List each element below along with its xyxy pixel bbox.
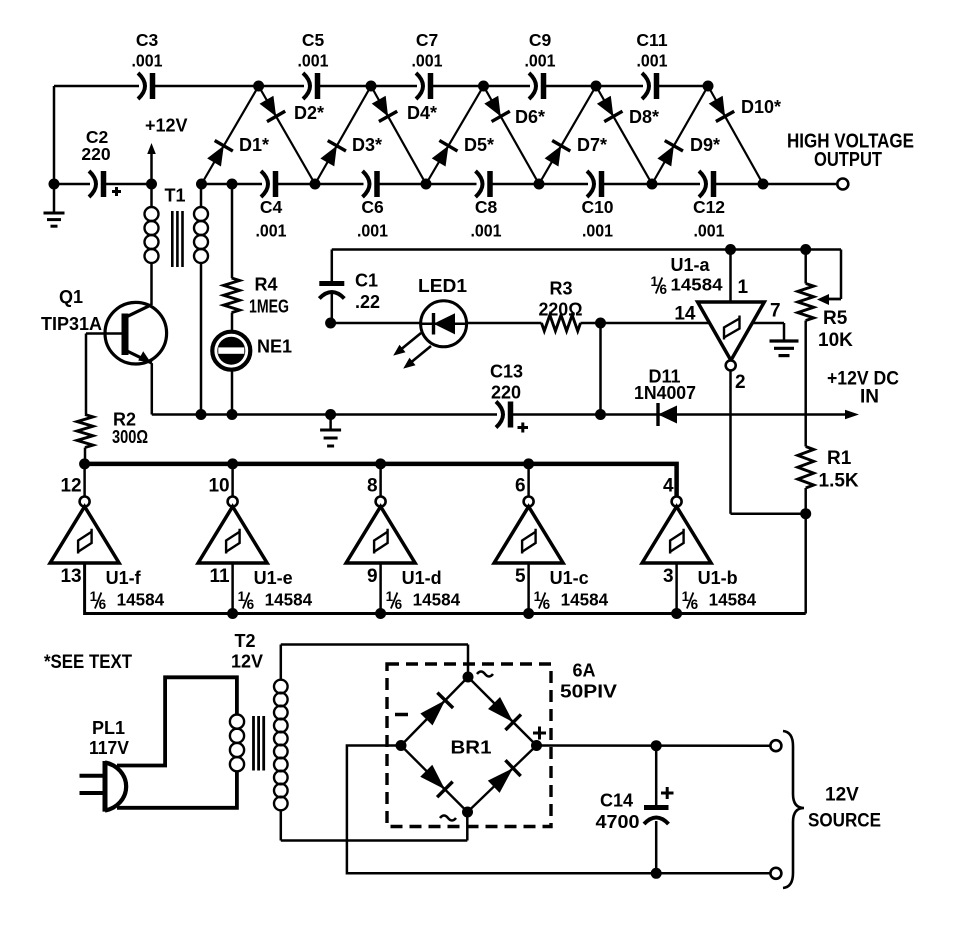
junction U1-a pin1 (725, 244, 736, 255)
capacitor C11 (636, 30, 667, 99)
capacitor C4 (256, 171, 287, 241)
svg-text:50PIV: 50PIV (560, 682, 617, 702)
svg-text:.001: .001 (357, 221, 388, 241)
transformer T2 primary (230, 631, 263, 771)
svg-text:14584: 14584 (265, 590, 313, 610)
capacitor C14 (596, 746, 674, 874)
capacitor C9 (525, 30, 556, 99)
ground left (44, 184, 65, 226)
diode D9 (652, 86, 720, 184)
junction output bus 8 (375, 458, 386, 469)
svg-text:.001: .001 (637, 51, 668, 71)
wire left rail (53, 86, 56, 184)
svg-text:D4*: D4* (407, 103, 437, 123)
svg-text:14584: 14584 (561, 590, 609, 610)
svg-text:*SEE TEXT: *SEE TEXT (44, 652, 132, 673)
svg-text:10: 10 (208, 476, 229, 497)
diode D10 (708, 86, 781, 184)
junction bottom node 5 (758, 179, 769, 190)
capacitor C8 (471, 171, 502, 241)
inverter U1-f (50, 464, 164, 612)
junction top node 5 (703, 81, 714, 92)
junction NE1 bottom (227, 409, 238, 420)
svg-text:1N4007: 1N4007 (634, 383, 696, 403)
HIGH VOLTAGE OUTPUT terminal (787, 131, 914, 190)
svg-text:.001: .001 (132, 51, 163, 71)
wire PL1 to T2 primary bottom (117, 772, 237, 808)
diode D1 (202, 86, 270, 184)
svg-text:117V: 117V (89, 738, 129, 758)
svg-text:6: 6 (515, 476, 526, 497)
svg-text:1: 1 (682, 589, 690, 604)
junction input bus 11 (227, 608, 238, 619)
inverter U1-c (494, 464, 608, 614)
svg-text:4: 4 (663, 476, 674, 497)
capacitor C10 (581, 171, 613, 241)
junction top node 4 (591, 81, 602, 92)
junction output bus 10 (227, 458, 238, 469)
svg-text:6: 6 (99, 597, 107, 612)
wire PL1 to T2 primary top (117, 677, 237, 765)
transformer T2 core (254, 716, 264, 771)
bridge BR1 (395, 672, 546, 821)
svg-text:12V: 12V (231, 652, 263, 672)
svg-text:9: 9 (367, 566, 378, 587)
svg-text:14584: 14584 (671, 275, 723, 295)
+12V DC IN (827, 369, 899, 420)
svg-text:R5: R5 (823, 308, 848, 329)
svg-text:D2*: D2* (294, 103, 324, 123)
svg-text:D6*: D6* (515, 107, 545, 127)
transformer T2 secondary (274, 645, 288, 841)
diode D11 (606, 367, 846, 427)
wire top rail (54, 85, 708, 88)
svg-text:C11: C11 (636, 30, 667, 50)
junction top node 1 (253, 81, 264, 92)
12V SOURCE brace (783, 731, 881, 888)
wire BR1 plus to 12V source (537, 744, 771, 747)
terminal 12V minus (770, 868, 781, 879)
junction C13 right (595, 409, 606, 420)
*SEE TEXT note (44, 652, 132, 673)
svg-text:220: 220 (81, 144, 110, 164)
junction output bus 12 (79, 458, 90, 469)
svg-text:+12V: +12V (145, 116, 188, 136)
diode D5 (426, 86, 494, 184)
svg-text:D1*: D1* (239, 135, 269, 155)
junction output bus 6 (523, 458, 534, 469)
svg-text:1: 1 (534, 589, 542, 604)
wire bottom rail (202, 183, 838, 186)
svg-text:Q1: Q1 (59, 287, 83, 307)
svg-text:U1-b: U1-b (698, 568, 738, 588)
svg-text:14: 14 (674, 304, 696, 325)
svg-text:14584: 14584 (117, 590, 165, 610)
svg-text:R3: R3 (549, 279, 572, 299)
svg-text:1: 1 (651, 274, 659, 289)
svg-text:6: 6 (660, 282, 668, 297)
transistor Q1 (41, 287, 167, 364)
ground U1-a pin7 (770, 341, 799, 356)
svg-text:1: 1 (238, 589, 246, 604)
capacitor C6 (357, 171, 388, 241)
wire U1-a pin2 output (731, 370, 806, 513)
diode D6 (484, 86, 546, 184)
svg-text:U1-e: U1-e (254, 568, 293, 588)
junction bottom node 2 (421, 179, 432, 190)
wire input bus (85, 563, 806, 614)
resistor R4 (224, 184, 289, 317)
svg-text:C8: C8 (475, 197, 498, 217)
svg-text:D7*: D7* (577, 135, 607, 155)
U1-a label 14584 (651, 274, 723, 297)
capacitor C3 (132, 30, 163, 99)
svg-text:4700: 4700 (596, 812, 640, 832)
svg-text:6: 6 (543, 597, 551, 612)
wire Q1 emitter rail (152, 363, 601, 414)
junction top node 2 (366, 81, 377, 92)
svg-text:2: 2 (735, 372, 746, 393)
svg-text:5: 5 (515, 566, 526, 587)
svg-text:C12: C12 (693, 197, 725, 217)
junction C2 left (49, 179, 60, 190)
svg-text:D10*: D10* (741, 97, 781, 117)
+12V supply (145, 116, 188, 190)
junction C14 top (651, 740, 662, 751)
bridge rectifier BR1 box (387, 661, 617, 827)
junction input bus 5 (523, 608, 534, 619)
svg-text:14584: 14584 (413, 590, 461, 610)
svg-text:6: 6 (691, 597, 699, 612)
junction C14 bottom (651, 868, 662, 879)
junction ground node (325, 409, 336, 420)
wire R5 to R1 (804, 321, 807, 447)
svg-text:C9: C9 (529, 30, 552, 50)
neon lamp NE1 (212, 313, 292, 415)
svg-text:T1: T1 (165, 186, 186, 206)
svg-text:D9*: D9* (690, 135, 720, 155)
capacitor C5 (298, 30, 329, 99)
junction bottom node 1 (310, 179, 321, 190)
svg-text:7: 7 (770, 301, 781, 322)
inverter U1-e (198, 464, 312, 614)
junction R5 top (800, 244, 811, 255)
svg-text:.001: .001 (525, 51, 556, 71)
wire BR1 minus to 12V source (347, 746, 771, 874)
capacitor C12 (693, 171, 725, 241)
ground center (320, 415, 341, 447)
wire Q1 base to R2 (85, 334, 88, 415)
wire to input bus (804, 514, 807, 614)
junction C1 bottom (325, 318, 336, 329)
wire feedback line (332, 250, 841, 300)
svg-text:3: 3 (663, 566, 674, 587)
svg-text:6: 6 (395, 597, 403, 612)
svg-text:1: 1 (738, 277, 749, 298)
svg-text:C1: C1 (355, 271, 378, 291)
junction bottom node 4 (647, 179, 658, 190)
junction input bus 9 (375, 608, 386, 619)
svg-text:.001: .001 (298, 51, 329, 71)
svg-text:12V: 12V (825, 785, 859, 806)
svg-text:TIP31A: TIP31A (41, 314, 102, 334)
junction R4 top (227, 179, 238, 190)
svg-text:D3*: D3* (352, 135, 382, 155)
svg-text:13: 13 (60, 566, 81, 587)
terminal 12V plus (770, 740, 781, 751)
resistor R1 (798, 447, 859, 514)
diode D8 (596, 86, 659, 184)
svg-text:C6: C6 (361, 197, 384, 217)
inverter U1-a (671, 250, 781, 394)
capacitor C7 (412, 30, 443, 99)
junction T1 secondary bottom (196, 409, 207, 420)
svg-text:8: 8 (367, 476, 378, 497)
svg-text:IN: IN (860, 387, 879, 408)
svg-text:220Ω: 220Ω (539, 299, 583, 319)
svg-text:11: 11 (210, 566, 231, 587)
svg-text:OUTPUT: OUTPUT (814, 149, 882, 171)
junction R3 output (595, 318, 606, 329)
wire R3 to C13 node (599, 323, 602, 415)
svg-text:SOURCE: SOURCE (808, 811, 881, 832)
svg-text:C13: C13 (490, 362, 523, 382)
inverter U1-d (346, 464, 460, 614)
wire T2 secondary bottom to BR1 (281, 812, 468, 841)
svg-text:C14: C14 (600, 791, 633, 811)
svg-text:1.5K: 1.5K (819, 471, 859, 492)
transformer T1 primary (145, 184, 186, 305)
junction top node 3 (478, 81, 489, 92)
potentiometer R5 (798, 250, 853, 352)
svg-text:D8*: D8* (629, 107, 659, 127)
capacitor C13 (490, 362, 528, 433)
svg-text:1: 1 (90, 589, 98, 604)
transformer T1 core (172, 211, 182, 267)
LED1 arrows (393, 333, 431, 369)
svg-text:C10: C10 (581, 197, 613, 217)
svg-text:C4: C4 (260, 197, 283, 217)
svg-text:C5: C5 (302, 30, 325, 50)
svg-text:U1-a: U1-a (671, 255, 711, 275)
diode D3 (315, 86, 382, 184)
resistor R3 (539, 279, 711, 332)
svg-text:12: 12 (60, 476, 81, 497)
capacitor C1 (319, 250, 380, 324)
svg-text:1MEG: 1MEG (249, 297, 289, 317)
diode D7 (539, 86, 607, 184)
svg-text:LED1: LED1 (418, 276, 467, 296)
svg-text:PL1: PL1 (92, 718, 125, 738)
diode D4 (371, 86, 437, 184)
svg-text:U1-d: U1-d (402, 568, 442, 588)
svg-text:D5*: D5* (464, 135, 494, 155)
svg-text:10K: 10K (818, 330, 853, 351)
svg-text:C3: C3 (136, 30, 159, 50)
wire T2 secondary top to BR1 (281, 645, 468, 678)
svg-text:C7: C7 (416, 30, 438, 50)
junction input bus 3 (671, 608, 682, 619)
svg-text:1: 1 (386, 589, 394, 604)
svg-text:.001: .001 (582, 221, 613, 241)
svg-text:T2: T2 (234, 631, 255, 651)
LED LED1 (331, 276, 542, 347)
svg-text:220: 220 (491, 383, 521, 403)
svg-text:U1-f: U1-f (106, 568, 142, 588)
svg-text:6: 6 (247, 597, 255, 612)
junction T1 secondary top (196, 179, 207, 190)
svg-text:U1-c: U1-c (550, 568, 589, 588)
junction R1 bottom (800, 508, 811, 519)
svg-text:6A: 6A (573, 661, 596, 681)
svg-text:.001: .001 (256, 221, 287, 241)
svg-text:300Ω: 300Ω (112, 427, 148, 447)
svg-text:14584: 14584 (709, 590, 757, 610)
svg-text:.001: .001 (412, 51, 443, 71)
plug PL1 (80, 718, 130, 812)
capacitor C2 (54, 127, 152, 197)
svg-text:R4: R4 (255, 275, 278, 295)
diode D2 (259, 86, 324, 184)
transformer T1 secondary (194, 184, 208, 415)
wire output bus (85, 464, 677, 497)
inverter U1-b (642, 476, 756, 614)
svg-text:NE1: NE1 (257, 337, 292, 357)
svg-text:.001: .001 (694, 221, 725, 241)
svg-text:R1: R1 (827, 448, 852, 469)
junction bottom node 3 (534, 179, 545, 190)
resistor R2 (77, 410, 148, 465)
svg-text:.22: .22 (355, 292, 380, 312)
wire pin7 to ground (752, 323, 784, 340)
svg-text:.001: .001 (471, 221, 502, 241)
svg-text:BR1: BR1 (451, 738, 492, 758)
